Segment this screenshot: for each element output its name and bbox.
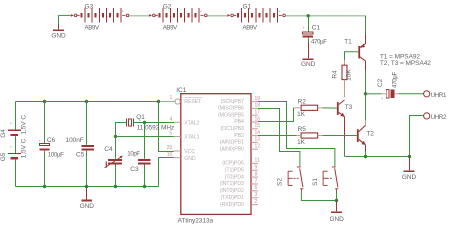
svg-text:(INT0)PD2: (INT0)PD2 xyxy=(220,188,244,194)
wire VCC branch xyxy=(159,102,174,152)
capacitor C1 470uF xyxy=(302,24,327,45)
capacitor C2 470uF xyxy=(377,72,399,102)
junction node C4 bottom xyxy=(114,185,117,188)
svg-text:1: 1 xyxy=(170,95,173,101)
svg-text:10pF: 10pF xyxy=(127,150,140,157)
capacitor C5 100nF xyxy=(66,137,94,158)
svg-text:(AIN1)PB1: (AIN1)PB1 xyxy=(220,140,244,146)
crystal Q1 xyxy=(126,114,174,131)
svg-text:(MOSI)PB5: (MOSI)PB5 xyxy=(218,112,244,118)
svg-text:(OC1)PB3: (OC1)PB3 xyxy=(221,126,244,132)
svg-text:(MISO)PB6: (MISO)PB6 xyxy=(218,106,244,112)
svg-text:VCC: VCC xyxy=(184,149,195,155)
bottom wire emitters to ground xyxy=(345,156,410,158)
junction node XTAL1/C4 xyxy=(114,135,117,138)
junction node at GND drop xyxy=(408,155,411,158)
pin 4 XTAL2 xyxy=(170,116,200,126)
svg-text:PB2: PB2 xyxy=(234,133,244,139)
battery G1 (AB9V) xyxy=(225,3,286,31)
svg-text:T1: T1 xyxy=(344,38,352,45)
svg-text:XTAL1: XTAL1 xyxy=(184,135,199,141)
wire UHR2 to bottom node xyxy=(410,116,424,157)
pin 1 RESET (bubble) xyxy=(159,95,203,105)
svg-text:(AIN0)PB0: (AIN0)PB0 xyxy=(220,146,244,152)
svg-text:S1: S1 xyxy=(312,178,319,186)
battery G3 (AB9V) xyxy=(68,3,129,31)
svg-text:G5: G5 xyxy=(0,152,7,161)
wire T2 emitter down xyxy=(365,145,367,152)
trimmer capacitor C4 xyxy=(104,146,123,168)
SECTION: right xyxy=(258,16,447,223)
svg-text:GND: GND xyxy=(402,174,417,181)
wire pin19 to S1 xyxy=(258,102,335,166)
resistor R4 10K xyxy=(332,65,353,81)
svg-text:6: 6 xyxy=(255,185,258,191)
svg-text:AB9V: AB9V xyxy=(163,25,178,32)
transistor T2 (NPN MPSA42) xyxy=(357,125,374,144)
wire G1 to corner above T1 xyxy=(286,15,366,17)
svg-text:C4: C4 xyxy=(104,146,113,153)
transistor T3 (NPN MPSA42) xyxy=(337,100,353,117)
svg-text:10K: 10K xyxy=(345,69,352,81)
wire R2 left stub xyxy=(294,107,302,109)
svg-text:7: 7 xyxy=(255,178,258,184)
wire G3 to G2 xyxy=(129,15,149,17)
wire T1 base to R4 xyxy=(345,52,359,60)
svg-text:R2: R2 xyxy=(298,98,307,105)
wire C2 node down to T2 collector xyxy=(365,94,367,121)
transistor T1 (PNP MPSA92) xyxy=(344,38,365,61)
svg-text:(ICP)PD6: (ICP)PD6 xyxy=(222,161,244,167)
wire down to C1 xyxy=(308,16,310,32)
wire between G4 and G5 xyxy=(15,136,17,153)
junction node C6 top xyxy=(43,100,46,103)
svg-text:(SCK)PB7: (SCK)PB7 xyxy=(221,99,244,105)
ground GND (left, below rail) xyxy=(80,187,95,210)
battery G2 (AB9V) xyxy=(146,3,207,31)
wire T3 emitter down xyxy=(344,117,346,139)
svg-text:C6: C6 xyxy=(47,137,56,144)
svg-text:UHR2: UHR2 xyxy=(431,114,447,121)
svg-text:13: 13 xyxy=(255,137,261,143)
junction node T2 emitter xyxy=(364,155,367,158)
switch S2 xyxy=(288,165,303,191)
svg-text:GND: GND xyxy=(80,203,95,210)
wire C6 top xyxy=(44,102,46,144)
junction node C6 bottom xyxy=(43,185,46,188)
junction node VCC27 xyxy=(307,14,310,17)
svg-text:C2: C2 xyxy=(377,78,384,87)
wire C3 bottom xyxy=(144,165,146,187)
right pin numbers 19..12 xyxy=(255,96,261,150)
wire R4 to T3 collector xyxy=(344,80,346,98)
pad UHR1 xyxy=(424,91,447,99)
svg-text:470µF: 470µF xyxy=(392,72,399,88)
wire R5 right to T2 base xyxy=(318,135,323,137)
ground GND (top left) xyxy=(51,15,66,39)
wire R2 to pin16 xyxy=(258,108,294,122)
wire crystal to XTAL2 xyxy=(134,122,174,124)
svg-text:100µF: 100µF xyxy=(48,151,64,158)
svg-text:17: 17 xyxy=(255,110,261,116)
svg-text:T2, T3 = MPSA42: T2, T3 = MPSA42 xyxy=(380,60,431,67)
right pin stubs 11..2 xyxy=(251,163,258,204)
wire pin14 to R5 xyxy=(258,135,297,137)
ground GND (below switches) xyxy=(329,201,344,223)
svg-text:10: 10 xyxy=(167,152,173,158)
svg-text:IC1: IC1 xyxy=(176,87,186,94)
svg-text:16: 16 xyxy=(255,116,261,122)
wire C4 top xyxy=(115,137,117,159)
svg-text:GND: GND xyxy=(329,216,344,223)
svg-text:G4: G4 xyxy=(0,129,7,138)
svg-text:20: 20 xyxy=(167,145,173,151)
svg-text:G1: G1 xyxy=(243,3,252,10)
pin 20 VCC xyxy=(167,145,196,155)
svg-text:C3: C3 xyxy=(130,166,139,173)
junction node VCC branch xyxy=(157,100,160,103)
ic IC1 ATtiny2313 box xyxy=(176,87,251,224)
svg-text:C5: C5 xyxy=(76,151,85,158)
svg-text:(T0)PD4: (T0)PD4 xyxy=(225,174,244,180)
wire GND pin route xyxy=(159,158,174,187)
right pin numbers 11..2 xyxy=(255,158,260,205)
wire left rail (lower) xyxy=(15,160,17,187)
junction node C3 bottom xyxy=(143,185,146,188)
battery G4 1,5V C xyxy=(0,115,27,138)
svg-text:470µF: 470µF xyxy=(311,38,327,45)
ground GND (bottom right) xyxy=(402,157,417,181)
right pin labels PB7..PB0 xyxy=(218,99,244,153)
wire T1 collector down to C2 node xyxy=(365,61,367,71)
junction node C3 top xyxy=(143,121,146,124)
svg-text:AB9V: AB9V xyxy=(85,25,100,32)
svg-text:100nF: 100nF xyxy=(66,137,84,144)
svg-text:5: 5 xyxy=(170,131,173,137)
svg-text:9: 9 xyxy=(255,165,258,171)
wire GND to G3 xyxy=(59,14,71,16)
resistor R5 1K xyxy=(297,126,318,146)
wire C3 top xyxy=(144,123,146,159)
SECTION: left xyxy=(0,100,174,210)
wire pin18 to S2 xyxy=(258,109,300,166)
capacitor C6 100uF xyxy=(38,137,64,158)
wire XTAL1 xyxy=(116,136,174,138)
svg-text:1,5V C: 1,5V C xyxy=(20,115,27,135)
wire node to C2 xyxy=(366,93,382,95)
svg-text:3: 3 xyxy=(255,192,258,198)
svg-text:R4: R4 xyxy=(332,70,339,79)
svg-text:(TXD)PD1: (TXD)PD1 xyxy=(221,195,244,201)
svg-text:1K: 1K xyxy=(297,111,306,118)
svg-text:RESET: RESET xyxy=(184,99,202,105)
junction node C5 top xyxy=(85,100,88,103)
junction node below S1 xyxy=(335,199,338,202)
ground GND (below C1) xyxy=(301,42,316,68)
wire C1 to ground xyxy=(308,38,310,42)
svg-text:T3: T3 xyxy=(345,104,353,111)
wire R2 right to T3 base xyxy=(318,107,323,109)
pad UHR2 xyxy=(424,113,447,121)
svg-text:GND: GND xyxy=(301,61,316,68)
wire C6 bottom xyxy=(44,151,46,187)
pin 5 XTAL1 xyxy=(170,131,200,141)
svg-text:11,0592 MHz: 11,0592 MHz xyxy=(137,124,175,131)
wire G2 to G1 xyxy=(207,15,227,17)
svg-text:C1: C1 xyxy=(312,24,321,31)
junction node C5 bottom xyxy=(85,185,88,188)
svg-text:AB9V: AB9V xyxy=(243,25,258,32)
svg-text:8: 8 xyxy=(255,171,258,177)
svg-text:XTAL2: XTAL2 xyxy=(184,120,199,126)
wire C2 to UHR1 xyxy=(394,93,399,95)
svg-text:18: 18 xyxy=(255,103,261,109)
wire top corner down to T1 emitter xyxy=(365,16,367,34)
svg-text:4: 4 xyxy=(170,116,173,122)
svg-text:2: 2 xyxy=(255,199,258,205)
svg-text:GND: GND xyxy=(51,33,66,40)
wire top rail xyxy=(16,101,159,103)
svg-text:12: 12 xyxy=(255,144,261,150)
svg-text:1K: 1K xyxy=(297,139,306,146)
pin 10 GND xyxy=(167,152,196,162)
svg-text:G2: G2 xyxy=(163,3,172,10)
SECTION: top battery chain xyxy=(51,3,365,68)
capacitor C3 10pF xyxy=(127,150,150,173)
battery G5 1,5V C xyxy=(0,138,27,161)
wire C5 top xyxy=(86,102,88,145)
svg-text:R5: R5 xyxy=(298,126,307,133)
wire C5 bottom xyxy=(86,151,88,187)
SECTION: ic xyxy=(159,87,261,224)
resistor R2 1K xyxy=(297,98,318,118)
svg-text:(RXD)PD0: (RXD)PD0 xyxy=(220,202,244,208)
svg-text:(INT1)PD3: (INT1)PD3 xyxy=(220,181,244,187)
svg-text:15: 15 xyxy=(255,123,261,129)
wire C4 bottom xyxy=(115,165,117,187)
svg-text:1,5V C: 1,5V C xyxy=(20,138,27,158)
right pin stubs 19..12 xyxy=(251,102,258,150)
svg-text:GND: GND xyxy=(184,156,196,162)
crystal wire left loop xyxy=(116,123,127,137)
svg-text:UHR1: UHR1 xyxy=(431,92,447,99)
switch S1 xyxy=(323,165,338,191)
wire switches to ground xyxy=(301,191,336,201)
svg-text:ATtiny2313a: ATtiny2313a xyxy=(178,217,214,224)
svg-text:S2: S2 xyxy=(277,178,284,186)
svg-text:14: 14 xyxy=(255,130,261,136)
wire bottom rail xyxy=(16,186,159,188)
svg-text:PB4: PB4 xyxy=(234,119,244,125)
wire left rail (upper) xyxy=(15,102,17,130)
svg-text:(T1)PD5: (T1)PD5 xyxy=(225,167,244,173)
svg-text:19: 19 xyxy=(255,96,261,102)
svg-text:11: 11 xyxy=(255,158,260,164)
junction node at C2 xyxy=(364,92,367,95)
svg-text:T2: T2 xyxy=(366,130,374,137)
svg-text:Q1: Q1 xyxy=(136,114,145,121)
right pin labels PD6..PD0 xyxy=(220,161,244,208)
svg-text:G3: G3 xyxy=(85,3,94,10)
